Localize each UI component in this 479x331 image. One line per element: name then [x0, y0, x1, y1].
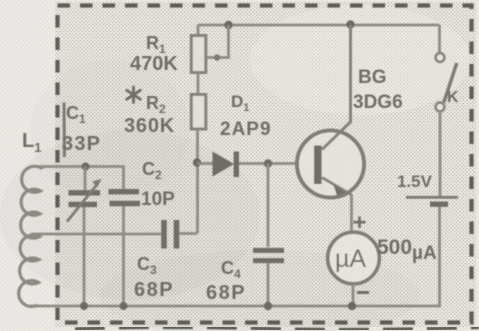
label asterisk	[127, 87, 141, 103]
wire switch to battery	[439, 112, 442, 197]
svg-text:BG: BG	[358, 67, 387, 88]
svg-text:K: K	[447, 89, 459, 106]
wire bottom rail	[27, 305, 441, 308]
node tap on rail	[224, 21, 232, 29]
wire C4 bottom drop	[267, 263, 270, 306]
svg-text:µA: µA	[335, 245, 366, 273]
svg-text:10P: 10P	[141, 189, 175, 210]
svg-text:3DG6: 3DG6	[353, 92, 403, 113]
node tank top	[82, 163, 90, 171]
wire R2 to diode node	[196, 129, 199, 234]
wire C3 bottom drop	[122, 206, 125, 306]
coil L1	[19, 166, 44, 306]
svg-text:68P: 68P	[206, 282, 246, 304]
artifact line	[63, 103, 66, 158]
capacitor C2	[164, 220, 177, 249]
capacitor C3	[109, 192, 141, 204]
wire emitter drop	[350, 194, 353, 233]
wire battery to bottom rail	[438, 207, 441, 307]
node collector rail	[346, 20, 354, 28]
wire diode anode	[197, 162, 213, 165]
wire R1 to R2	[197, 73, 200, 95]
node tap contact	[214, 54, 220, 60]
diode D1	[213, 152, 237, 178]
wire C1 top drop	[84, 167, 87, 191]
meter uA	[328, 232, 380, 284]
node diode anode	[193, 158, 201, 166]
svg-text:360K: 360K	[124, 115, 175, 137]
wire R1 tap	[207, 25, 229, 58]
node detector output	[264, 159, 272, 167]
variable capacitor C1	[67, 179, 102, 222]
svg-text:470K: 470K	[130, 53, 178, 75]
svg-text:68P: 68P	[134, 279, 174, 301]
wire R1 top	[197, 25, 200, 36]
node bottom C1	[80, 302, 88, 310]
node bottom C4	[264, 302, 272, 310]
wire C2 to main vertical	[180, 232, 198, 235]
smudge bottom edge line	[75, 327, 479, 329]
wire rail to switch	[438, 25, 441, 53]
label minus	[357, 291, 369, 294]
wire meter bottom	[352, 284, 355, 306]
node bottom C3	[120, 302, 128, 310]
wire top rail	[198, 24, 440, 27]
wire diode cathode to base	[239, 162, 315, 165]
svg-text:1.5V: 1.5V	[397, 172, 433, 191]
resistor R2	[191, 95, 206, 130]
svg-text:2AP9: 2AP9	[220, 119, 272, 140]
node bottom meter	[348, 302, 356, 310]
svg-text:33P: 33P	[62, 133, 101, 155]
capacitor C4	[253, 250, 284, 260]
transistor BG	[297, 25, 364, 198]
wire coil tap to C2	[31, 233, 161, 236]
wire C4 top drop	[267, 164, 270, 248]
resistor R1	[191, 36, 206, 73]
battery 1.5V	[406, 197, 458, 204]
switch K	[436, 53, 457, 111]
wire coil top to C3 bend	[36, 167, 124, 190]
wire C1 bottom drop	[83, 207, 86, 306]
label +	[354, 217, 366, 229]
